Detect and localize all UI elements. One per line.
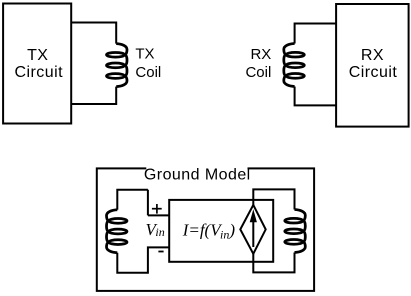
svg-text:RX: RX <box>361 47 384 64</box>
svg-text:in: in <box>155 225 164 239</box>
svg-text:Ground Model: Ground Model <box>144 166 251 183</box>
svg-text:Coil: Coil <box>245 64 271 81</box>
svg-text:in: in <box>220 228 229 242</box>
svg-text:Coil: Coil <box>135 64 161 81</box>
svg-text:Circuit: Circuit <box>15 64 64 81</box>
svg-text:Circuit: Circuit <box>349 64 398 81</box>
svg-text:TX: TX <box>135 46 154 63</box>
svg-text:I=f(V: I=f(V <box>182 220 224 239</box>
svg-text:RX: RX <box>250 46 271 63</box>
svg-text:TX: TX <box>27 47 48 64</box>
svg-text:): ) <box>228 220 235 239</box>
